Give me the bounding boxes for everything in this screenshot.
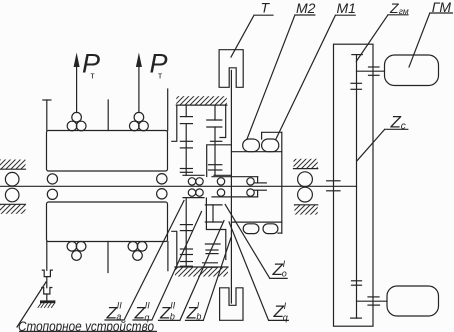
- stopper text underline: [19, 330, 157, 332]
- leader GM: [409, 13, 452, 67]
- GM1 axle: [357, 70, 385, 72]
- GM2 axle: [357, 300, 388, 302]
- roller cluster top 1: [72, 112, 82, 122]
- Zc gear bars top: [351, 82, 362, 84]
- svg-text:II: II: [117, 301, 123, 311]
- svg-text:Z: Z: [390, 113, 402, 132]
- svg-text:II: II: [170, 301, 176, 311]
- bearing cluster 2x2: [188, 178, 195, 185]
- gear bars S2 low b: [203, 262, 218, 264]
- coupling to hydro unit: [327, 180, 340, 182]
- upper drum rectangle: [47, 131, 168, 172]
- svg-text:ГМ: ГМ: [432, 0, 452, 15]
- gear bars S2 low a: [206, 249, 218, 251]
- gear bars S1 c: [180, 168, 192, 170]
- brake band bracket bottom: [220, 288, 243, 321]
- stopper anchor (solid bar): [40, 300, 55, 303]
- leader to stopper text: [17, 282, 46, 327]
- svg-text:b: b: [196, 312, 201, 322]
- svg-text:Стопорное устройство: Стопорное устройство: [18, 319, 154, 332]
- svg-text:M2: M2: [296, 0, 316, 16]
- drum left bearing pair: [47, 174, 57, 184]
- lower ring rail: [206, 198, 225, 259]
- roller cluster top 2: [134, 112, 144, 122]
- clutch drum M1 (capsule): [262, 139, 279, 152]
- leader Zc: [357, 129, 408, 161]
- clutch housing bottom lip: [278, 232, 282, 234]
- bottom housing hatched band: [175, 266, 228, 268]
- brake shaft upper: [230, 71, 232, 304]
- lower drum rectangle: [47, 202, 168, 242]
- leader Zb1: [186, 238, 231, 320]
- bearing pair x221: [217, 178, 224, 185]
- bottom housing left wall: [172, 231, 177, 267]
- stopper link: [46, 277, 48, 288]
- output support top (hatched): [294, 159, 318, 169]
- gear bars S1 low b: [180, 248, 192, 250]
- left frame support top (hatched): [0, 160, 26, 170]
- roller cluster bottom 2: [128, 242, 138, 252]
- hydro frame box: [334, 44, 374, 326]
- lower planet shaft S1: [185, 198, 187, 267]
- main axis shaft line: [0, 185, 357, 187]
- sleeve line top: [212, 176, 258, 178]
- leader Zo1: [225, 205, 287, 279]
- housing left wall: [172, 105, 177, 141]
- leader Zq1: [229, 222, 288, 320]
- Zc shaft: [356, 55, 358, 319]
- leader T: [231, 15, 273, 57]
- clutch drum low 2 (capsule): [263, 224, 278, 234]
- leader M1: [276, 15, 355, 139]
- leader Zb2: [159, 221, 225, 321]
- svg-text:T: T: [261, 0, 271, 16]
- clutch housing shelf bottom: [232, 221, 282, 223]
- clutch housing right wall: [281, 132, 283, 233]
- gear bars S2 mid: [209, 164, 222, 166]
- svg-text:т: т: [91, 71, 95, 81]
- carrier plate left: [183, 174, 204, 176]
- drum right edge lower riser: [167, 242, 169, 271]
- svg-text:I: I: [284, 301, 287, 311]
- clutch housing step: [262, 132, 282, 139]
- output double bearing: [298, 172, 313, 187]
- gearbox housing top hatched band: [176, 96, 227, 105]
- hub coupling: [257, 177, 259, 183]
- roller cluster bottom 1: [67, 242, 77, 252]
- force arrow P_T 1: [76, 66, 78, 113]
- bearing pair x250: [247, 178, 254, 185]
- gear bars S1 low a: [180, 224, 192, 226]
- stopper anchor hatch: [38, 303, 55, 307]
- gear bar S2 low cap: [205, 243, 220, 245]
- clutch housing shelf top: [232, 151, 282, 153]
- svg-text:I: I: [197, 301, 200, 311]
- gear bars S1 b: [180, 140, 192, 142]
- lower gear S2 I-bar: [205, 204, 222, 206]
- gear bars S1 a: [180, 116, 192, 118]
- stopper cup upper: [42, 270, 52, 277]
- lower drum hanger post: [107, 242, 109, 273]
- gear bar S2 mesh: [211, 140, 222, 142]
- leader Zq2: [133, 212, 202, 321]
- svg-text:т: т: [158, 71, 162, 81]
- stopper cup lower: [42, 288, 52, 295]
- gear bars S2 top (wide): [207, 119, 222, 121]
- drum right edge riser: [167, 89, 169, 131]
- svg-text:c: c: [401, 121, 406, 132]
- GM1 gear bars: [369, 66, 380, 68]
- left frame support bottom (hatched): [0, 203, 26, 205]
- housing right wall: [220, 105, 226, 137]
- force arrow P_T 2: [138, 66, 140, 113]
- brake band bracket top: [219, 50, 243, 88]
- clutch drum low 1 (capsule): [243, 224, 259, 234]
- drum right bearing pair: [157, 174, 167, 184]
- brake anchor post with cap on drum: [46, 100, 48, 131]
- gear bars S1 low c: [180, 261, 192, 263]
- sleeve line bottom: [212, 196, 258, 198]
- svg-text:b: b: [170, 312, 175, 322]
- carrier plate right: [214, 174, 231, 176]
- leader M2: [247, 15, 315, 139]
- stopper link 2: [46, 294, 48, 300]
- leader Zgm: [356, 15, 408, 62]
- post on drum top right: [107, 100, 109, 131]
- carrier plate left low: [183, 197, 204, 199]
- planet shaft S1 upper: [185, 105, 187, 117]
- output support bottom (hatched): [295, 204, 318, 206]
- svg-text:M1: M1: [337, 0, 356, 16]
- svg-text:Z: Z: [389, 0, 399, 16]
- svg-text:II: II: [145, 301, 151, 311]
- leader Za2: [105, 201, 184, 321]
- svg-text:o: o: [282, 269, 287, 279]
- svg-text:q: q: [283, 313, 288, 323]
- clutch drum M2 (capsule): [243, 139, 260, 152]
- stopper device rod: [46, 242, 48, 271]
- svg-text:гм: гм: [399, 6, 409, 16]
- left shaft double bearing: [5, 172, 19, 186]
- GM2 gear bars: [368, 296, 379, 298]
- GM1 hydraulic machine body: [385, 55, 439, 86]
- planet shaft S2 upper: [214, 105, 216, 120]
- GM2 hydraulic machine body: [387, 286, 439, 316]
- ring gear rail: [207, 145, 232, 177]
- Zc gear bars bottom: [352, 280, 362, 282]
- svg-text:I: I: [283, 259, 286, 269]
